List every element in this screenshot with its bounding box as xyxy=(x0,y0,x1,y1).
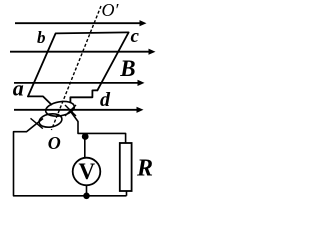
svg-text:d: d xyxy=(100,89,111,111)
svg-text:c: c xyxy=(131,26,140,47)
svg-text:b: b xyxy=(37,28,46,47)
svg-text:a: a xyxy=(13,76,24,101)
svg-text:V: V xyxy=(78,159,95,184)
svg-text:O′: O′ xyxy=(102,0,120,20)
svg-text:B: B xyxy=(119,56,135,81)
svg-text:R: R xyxy=(136,156,153,182)
svg-text:O: O xyxy=(48,133,61,153)
